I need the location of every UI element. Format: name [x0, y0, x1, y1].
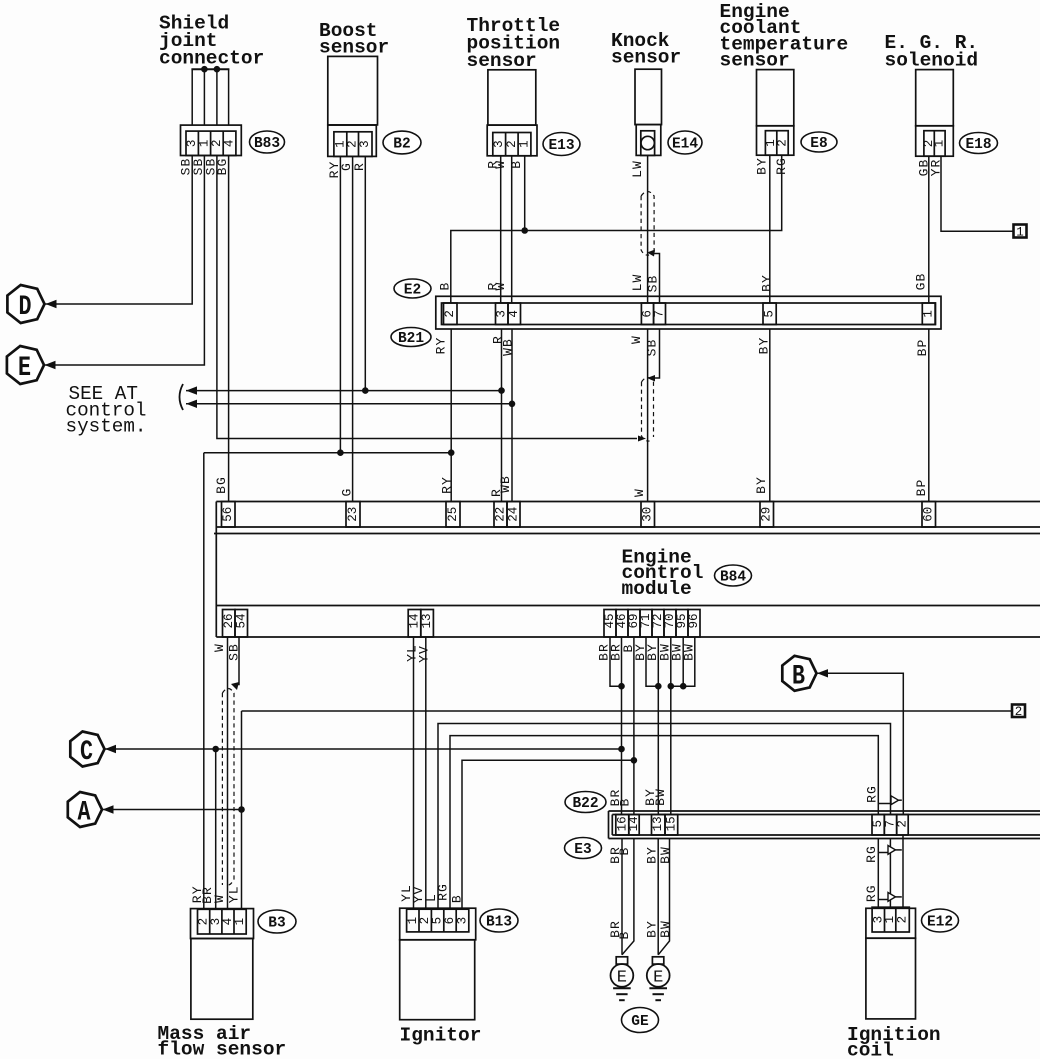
connector bar E2 B21 outer	[436, 296, 941, 329]
MAF body	[191, 939, 253, 1020]
page ref square 2	[1012, 705, 1025, 718]
arrow SB knock shield	[647, 250, 655, 257]
svg-text:E13: E13	[548, 138, 574, 154]
svg-text:56: 56	[221, 507, 235, 522]
wire BW E3 joins BY	[658, 839, 669, 955]
connector E14	[636, 125, 661, 156]
wire SB ECM54 shield drain	[235, 637, 239, 685]
connector ref B84	[715, 565, 752, 586]
svg-text:connector: connector	[159, 48, 264, 70]
connector B83	[181, 125, 242, 155]
wire boost G to ECM 23	[352, 156, 354, 501]
shield arrow coil mid	[878, 852, 888, 854]
EGR solenoid body	[916, 70, 954, 126]
arrow AT line WB	[186, 400, 197, 408]
wire RY to MAF	[203, 453, 205, 910]
svg-text:2: 2	[1015, 705, 1023, 719]
connector ref E2	[394, 279, 431, 298]
B21 pin 4 cell	[508, 303, 521, 325]
wire B E3 joins BR	[622, 839, 634, 955]
svg-text:96: 96	[687, 613, 701, 628]
connector E13	[487, 125, 537, 156]
ECM top bar bottom line	[216, 526, 1040, 528]
junction dot BW 95	[680, 683, 687, 690]
B22 pin 5 cell	[872, 815, 884, 836]
B22 pin 15 cell	[665, 815, 678, 836]
svg-text:D: D	[19, 292, 32, 323]
svg-text:W: W	[629, 335, 644, 344]
wire YL ECM14 to ignitor 1	[413, 637, 415, 909]
connector bar B22 E3 inner	[612, 814, 1040, 816]
arrow to E	[45, 361, 56, 369]
svg-text:W: W	[632, 488, 647, 497]
svg-text:1: 1	[1016, 225, 1024, 239]
ECM pin 25 cell	[446, 502, 460, 528]
B22 pin 7 cell	[884, 815, 896, 836]
svg-text:24: 24	[507, 507, 521, 522]
B22 pin 2 cell	[897, 815, 909, 836]
wire BW ECM70 to B22 15	[670, 637, 672, 815]
wire B E3 to coil 2	[902, 835, 904, 907]
connector ref B21	[391, 328, 431, 347]
svg-text:module: module	[622, 578, 692, 600]
svg-text:1: 1	[933, 140, 947, 148]
svg-text:15: 15	[664, 816, 678, 831]
svg-text:30: 30	[641, 507, 655, 522]
wire RG E3 to coil 3	[877, 839, 879, 908]
paren mark	[180, 384, 184, 410]
connector bar E2 B21 inner	[442, 303, 936, 325]
connector ref E3	[565, 838, 602, 859]
svg-text:E18: E18	[965, 137, 991, 153]
junction dot C-BR maf	[212, 746, 219, 753]
ECM pin 54 cell	[235, 610, 248, 638]
svg-text:54: 54	[234, 613, 248, 628]
wire SB to D	[46, 156, 193, 305]
wire YV ECM13 to ignitor 2	[425, 637, 427, 909]
wire boost RY	[339, 156, 341, 452]
shield joint connector top bracket	[191, 68, 229, 70]
junction dot RY	[448, 449, 455, 456]
junction dot BY	[655, 683, 662, 690]
arrow to A	[103, 805, 114, 813]
wire L E3 to coil 1	[889, 839, 891, 908]
arrow SB to shield	[638, 436, 646, 442]
boost sensor body	[328, 56, 378, 125]
wire SB pin1 upper	[203, 69, 205, 125]
B21 pin 7 cell	[654, 303, 666, 325]
connector ref B2	[383, 131, 421, 154]
ECM pin 26 cell	[223, 610, 236, 638]
svg-text:29: 29	[760, 507, 774, 522]
svg-text:RG: RG	[436, 883, 451, 901]
wire A line	[103, 809, 242, 811]
ignitor body	[400, 940, 475, 1020]
svg-text:13: 13	[420, 613, 434, 628]
svg-text:2: 2	[895, 820, 909, 828]
svg-text:2: 2	[776, 139, 790, 147]
ECM pin 24 cell	[507, 502, 520, 528]
wire BW ECM96	[671, 637, 695, 686]
junction dot bracket pin2	[214, 66, 221, 73]
connector ref B13	[480, 909, 518, 932]
wire BY B21 to ECM 29	[769, 329, 771, 502]
connector ref E8	[801, 132, 837, 152]
svg-text:2: 2	[443, 310, 457, 318]
svg-text:solenoid: solenoid	[885, 49, 979, 71]
wire BG pin4 upper	[228, 69, 230, 125]
wire SB pin3 upper	[191, 69, 193, 125]
wire RY B21 to ECM 25	[450, 329, 452, 502]
svg-text:23: 23	[346, 507, 360, 522]
svg-text:RG: RG	[864, 884, 879, 902]
svg-text:1: 1	[922, 310, 936, 318]
ECM pin 71 cell	[640, 610, 652, 638]
svg-text:4: 4	[507, 310, 521, 318]
svg-text:E: E	[617, 969, 627, 988]
svg-text:BW: BW	[658, 846, 673, 864]
connector E18	[916, 126, 954, 156]
svg-text:60: 60	[922, 507, 936, 522]
ECM pin 96 cell	[688, 610, 700, 638]
shield arrow coil low	[878, 899, 888, 901]
svg-text:flow sensor: flow sensor	[158, 1039, 287, 1059]
svg-text:3: 3	[456, 917, 470, 925]
svg-text:RY: RY	[434, 337, 449, 355]
connector ref B3	[258, 910, 296, 933]
svg-text:RY: RY	[440, 476, 455, 494]
ECM pin 14 cell	[408, 610, 421, 638]
ECM pin 95 cell	[676, 610, 688, 638]
ECM pin 30 cell	[641, 502, 655, 528]
svg-text:YL: YL	[227, 885, 242, 903]
svg-text:B2: B2	[393, 137, 410, 153]
wire W B21 to ECM 30	[647, 329, 649, 502]
svg-text:14: 14	[627, 816, 641, 831]
wire WB to AT	[186, 403, 512, 405]
connector ref E18	[960, 133, 998, 154]
shield arrow coil top	[878, 803, 890, 805]
svg-text:B3: B3	[268, 916, 285, 932]
ignition coil body	[866, 938, 916, 1019]
wire SB stub knock	[652, 254, 660, 304]
ECM pin 56 cell	[222, 502, 236, 528]
svg-text:sensor: sensor	[720, 49, 790, 71]
ground E right	[652, 957, 663, 964]
connector symbol E	[7, 346, 44, 384]
svg-text:B: B	[617, 847, 632, 856]
wire BR ECM45	[610, 637, 622, 686]
svg-text:E14: E14	[672, 137, 698, 153]
connector symbol B	[782, 656, 816, 691]
ECM pin 70 cell	[664, 610, 676, 638]
svg-text:E12: E12	[927, 915, 953, 931]
ECM pin 23 cell	[346, 502, 360, 528]
svg-text:BP: BP	[915, 339, 930, 357]
wire RY horizontal	[204, 452, 451, 454]
junction dot B ignitor	[631, 757, 638, 764]
svg-text:5: 5	[763, 310, 777, 318]
svg-text:WB: WB	[500, 338, 515, 356]
ECM pin 45 cell	[604, 610, 616, 638]
wire SB stub below B21	[652, 329, 660, 378]
connector E12	[866, 908, 916, 938]
wire SB pin2 upper	[216, 69, 218, 125]
ECM bottom bar top line	[216, 605, 1040, 607]
svg-text:22: 22	[494, 507, 508, 522]
wire coolant BY	[769, 155, 771, 303]
connector ref GE	[622, 1008, 659, 1033]
connector B13	[400, 908, 476, 940]
connector symbol D	[7, 285, 44, 323]
ECM left edge	[215, 502, 217, 638]
svg-text:E: E	[18, 353, 31, 384]
wire EGR GB	[928, 156, 930, 303]
svg-text:RG: RG	[864, 845, 879, 863]
junction dot bracket pin1	[201, 66, 208, 73]
coolant temperature sensor body	[757, 70, 794, 126]
arrow SB shield below	[647, 375, 655, 382]
B21 pin 6 cell	[641, 303, 653, 325]
connector B3	[191, 909, 254, 939]
svg-text:Ignitor: Ignitor	[400, 1025, 482, 1047]
svg-text:GB: GB	[914, 273, 929, 291]
MAF shield dashed	[222, 689, 234, 886]
wire R B21 to ECM 22	[501, 329, 503, 502]
B22 pin 16 cell	[616, 815, 629, 836]
ECM pin 69 cell	[628, 610, 640, 638]
svg-text:B: B	[792, 661, 805, 692]
wire RG ignitor 6	[450, 736, 878, 910]
svg-text:B13: B13	[486, 915, 512, 931]
wire RG coolant horizontal	[451, 155, 782, 303]
svg-text:LW: LW	[630, 160, 645, 178]
B21 pin 2 cell	[444, 303, 458, 325]
knock shield dashed	[641, 192, 654, 256]
svg-text:B84: B84	[720, 570, 746, 586]
connector ref E14	[668, 131, 702, 154]
ECM pin 29 cell	[760, 502, 774, 528]
arrow to B	[817, 669, 828, 677]
wire YL A to MAF	[241, 711, 243, 909]
connector E8	[757, 126, 794, 155]
svg-text:BY: BY	[754, 476, 769, 494]
connector ref E12	[922, 909, 959, 932]
wire L ignitor 5	[438, 724, 891, 910]
svg-text:YV: YV	[416, 645, 431, 663]
svg-text:B: B	[617, 798, 632, 807]
svg-text:7: 7	[653, 310, 667, 318]
svg-text:1: 1	[233, 918, 247, 926]
svg-text:sensor: sensor	[319, 37, 389, 59]
wire SB pin2 long	[217, 156, 637, 439]
ECM top bar line	[216, 501, 1040, 503]
svg-text:C: C	[80, 737, 93, 768]
svg-text:BY: BY	[759, 274, 774, 292]
wire to square 2	[242, 710, 1013, 712]
arrow SB MAF shield	[231, 682, 239, 690]
svg-text:BY: BY	[755, 157, 770, 175]
wire WB B21 to ECM 24	[511, 329, 513, 502]
svg-text:3: 3	[358, 140, 372, 148]
shield dashed below B21	[642, 378, 654, 442]
ECM bottom bar lower line	[216, 636, 1040, 638]
svg-text:sensor: sensor	[467, 50, 537, 72]
junction dot RY boost	[337, 449, 344, 456]
junction dot R	[498, 387, 505, 394]
svg-text:25: 25	[446, 507, 460, 522]
junction dot BR	[618, 683, 625, 690]
svg-text:W: W	[212, 894, 227, 903]
ECM pin 46 cell	[616, 610, 628, 638]
wire EGR YR to square 1	[941, 156, 1014, 231]
svg-text:A: A	[78, 798, 91, 829]
svg-text:E8: E8	[810, 136, 827, 152]
svg-text:B22: B22	[572, 796, 598, 812]
svg-text:BG: BG	[214, 476, 229, 494]
svg-text:WB: WB	[498, 475, 513, 493]
knock sensor body	[635, 69, 662, 124]
junction dot A-YL	[238, 806, 245, 813]
svg-text:E2: E2	[404, 283, 421, 299]
svg-text:coil: coil	[847, 1040, 894, 1059]
wire throttle W	[511, 156, 513, 303]
wire R to AT	[186, 390, 502, 392]
svg-text:GE: GE	[631, 1014, 649, 1030]
B21 pin 1 cell	[922, 303, 935, 325]
svg-text:E: E	[653, 969, 663, 988]
B22 pin 14 cell	[629, 815, 639, 836]
B21 pin 5 cell	[763, 303, 776, 325]
svg-text:2: 2	[896, 916, 910, 924]
wire knock LW	[647, 155, 649, 303]
ECM pin 72 cell	[652, 610, 664, 638]
connector B2	[328, 125, 377, 156]
svg-text:B: B	[449, 894, 464, 903]
junction dot BW 70	[668, 683, 675, 690]
svg-text:W: W	[212, 643, 227, 652]
junction dot WB	[509, 401, 516, 408]
ECM top bar outer line	[214, 533, 1040, 535]
junction dot throttle B	[521, 227, 528, 234]
ECM pin 22 cell	[494, 502, 507, 528]
wire W ECM26 to MAF	[227, 637, 229, 909]
svg-text:E3: E3	[574, 842, 591, 858]
arrow to D	[46, 300, 57, 308]
svg-text:B21: B21	[398, 331, 424, 347]
svg-text:BW: BW	[653, 788, 668, 806]
ECM pin 13 cell	[421, 610, 434, 638]
wire BW ECM95	[682, 637, 684, 686]
wire BY E3 to ground	[657, 839, 659, 955]
wire boost R	[364, 156, 366, 390]
svg-text:4: 4	[223, 140, 237, 148]
wire BY ECM71	[646, 637, 658, 686]
svg-text:RG: RG	[865, 785, 880, 803]
wire B line	[817, 673, 903, 814]
B22 pin 13 cell	[652, 815, 666, 836]
throttle position sensor body	[488, 70, 536, 125]
wire BG to ECM 56	[228, 156, 230, 502]
wire BP B21 to ECM 60	[928, 329, 930, 502]
page ref square 1	[1014, 225, 1027, 238]
connector ref B22	[565, 792, 606, 813]
wire BR E3 to ground	[621, 839, 623, 955]
ECM pin 60 cell	[922, 502, 936, 528]
wire throttle R	[500, 156, 502, 303]
ground E left	[616, 957, 627, 964]
connector ref B83	[250, 131, 285, 153]
svg-text:BP: BP	[914, 479, 929, 497]
svg-text:sensor: sensor	[611, 47, 681, 69]
svg-text:B: B	[617, 931, 632, 940]
connector symbol C	[70, 732, 104, 767]
arrow AT line R	[186, 386, 197, 394]
svg-text:B83: B83	[254, 136, 280, 152]
B21 pin 3 cell	[496, 303, 509, 325]
junction dot C-BR ecm	[618, 746, 625, 753]
svg-text:13: 13	[651, 816, 665, 831]
connector symbol A	[68, 792, 102, 827]
wire BR C to MAF	[215, 749, 217, 909]
wire throttle B	[524, 156, 526, 231]
wire BY ECM72 to B22 13	[657, 637, 659, 815]
junction dot boost R	[362, 387, 369, 394]
wire B ECM69 to B22 14	[633, 637, 635, 815]
connector bar B22 E3 outer	[609, 810, 1040, 812]
svg-text:BW: BW	[658, 920, 673, 938]
wire BR ECM46 to B22 16	[621, 637, 623, 815]
wire B ignitor 3	[462, 760, 634, 909]
wire C line	[105, 748, 622, 750]
wire SB to E	[45, 156, 205, 366]
svg-text:system.: system.	[66, 415, 147, 437]
arrow to C	[105, 745, 116, 753]
svg-text:1: 1	[518, 140, 532, 148]
connector ref E13	[543, 133, 580, 156]
svg-text:LW: LW	[630, 274, 645, 292]
